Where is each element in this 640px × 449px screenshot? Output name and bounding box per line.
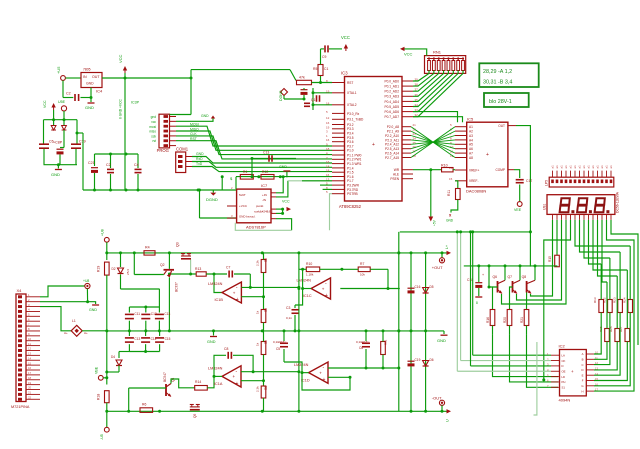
- svg-text:R18: R18: [97, 394, 101, 400]
- svg-text:C7: C7: [226, 266, 230, 270]
- svg-text:R20: R20: [503, 317, 507, 323]
- svg-text:D4: D4: [111, 355, 115, 359]
- svg-text:C6: C6: [359, 346, 363, 350]
- svg-text:C5: C5: [276, 347, 280, 351]
- svg-text:R11: R11: [384, 339, 388, 345]
- svg-text:28,29 -A 1,2: 28,29 -A 1,2: [483, 69, 512, 75]
- svg-text:12: 12: [28, 347, 32, 351]
- svg-text:PH: PH: [562, 380, 566, 384]
- svg-text:+: +: [322, 286, 325, 291]
- svg-text:Q1: Q1: [311, 98, 316, 102]
- svg-text:a1: a1: [560, 165, 564, 169]
- svg-text:GND: GND: [196, 152, 204, 156]
- svg-text:19: 19: [326, 89, 330, 93]
- svg-text:LM324N: LM324N: [294, 363, 309, 367]
- svg-text:D2: D2: [112, 267, 116, 271]
- svg-text:C13: C13: [134, 337, 140, 341]
- svg-text:LP5: LP5: [545, 180, 549, 186]
- svg-text:A6: A6: [469, 147, 473, 151]
- svg-text:IC2: IC2: [559, 344, 566, 349]
- svg-text:-U5: -U5: [100, 434, 104, 440]
- svg-text:VBE: VBE: [95, 366, 99, 374]
- svg-text:R12: R12: [262, 170, 268, 174]
- svg-text:Q8: Q8: [522, 275, 527, 279]
- svg-text:RN1: RN1: [433, 50, 442, 55]
- svg-text:DC56-11EWA: DC56-11EWA: [616, 191, 620, 213]
- svg-text:a1: a1: [551, 165, 555, 169]
- svg-text:A8: A8: [469, 156, 473, 160]
- svg-text:P0.2_AD2: P0.2_AD2: [384, 90, 399, 94]
- svg-text:19: 19: [28, 381, 32, 385]
- svg-text:+: +: [233, 290, 236, 295]
- svg-text:A+: A+: [64, 331, 68, 335]
- svg-text:R4: R4: [145, 246, 150, 250]
- svg-text:21: 21: [413, 123, 417, 127]
- svg-text:1.18k: 1.18k: [306, 273, 314, 277]
- svg-text:OUT: OUT: [92, 75, 100, 79]
- svg-text:12: 12: [326, 116, 330, 120]
- svg-text:14: 14: [449, 166, 453, 170]
- svg-text:miso: miso: [149, 130, 156, 134]
- svg-text:P2.4_A12: P2.4_A12: [385, 143, 399, 147]
- svg-text:P0.6_AD6: P0.6_AD6: [384, 110, 399, 114]
- svg-text:VCC: VCC: [404, 52, 413, 57]
- svg-text:VREF+: VREF+: [469, 168, 480, 172]
- svg-text:a1: a1: [609, 165, 613, 169]
- svg-text:ALE: ALE: [393, 172, 399, 176]
- svg-text:R13: R13: [195, 267, 201, 271]
- svg-text:A7: A7: [469, 152, 473, 156]
- svg-text:GND: GND: [51, 172, 60, 177]
- svg-text:VCC: VCC: [118, 54, 123, 63]
- svg-text:C19: C19: [79, 140, 86, 144]
- svg-text:DGND: DGND: [279, 90, 283, 101]
- svg-text:P3.1_TxBD: P3.1_TxBD: [347, 118, 364, 122]
- svg-text:P2.6_A14: P2.6_A14: [385, 152, 399, 156]
- svg-text:C13: C13: [263, 151, 269, 155]
- svg-text:+: +: [482, 273, 484, 277]
- svg-text:15: 15: [449, 177, 453, 181]
- svg-text:R14: R14: [195, 380, 201, 384]
- svg-text:CK: CK: [562, 359, 566, 363]
- svg-text:XTAL2: XTAL2: [347, 103, 357, 107]
- svg-text:P2.3_A11: P2.3_A11: [385, 138, 399, 142]
- svg-text:LD: LD: [562, 375, 566, 379]
- svg-text:47k: 47k: [299, 76, 305, 80]
- svg-text:a1: a1: [600, 165, 604, 169]
- svg-text:a1: a1: [578, 165, 582, 169]
- svg-text:OUT: OUT: [498, 124, 505, 128]
- svg-text:18: 18: [326, 101, 330, 105]
- svg-text:C9: C9: [322, 55, 326, 59]
- svg-text:C15: C15: [165, 337, 171, 341]
- svg-text:+IN: +IN: [262, 193, 267, 197]
- svg-text:R11: R11: [447, 190, 451, 196]
- svg-text:C8: C8: [224, 347, 228, 351]
- svg-text:IC1C: IC1C: [303, 294, 312, 298]
- svg-text:R15: R15: [548, 256, 552, 262]
- svg-text:P2.0_A8: P2.0_A8: [387, 125, 399, 129]
- svg-text:a1: a1: [591, 165, 595, 169]
- svg-text:ADS7816P: ADS7816P: [246, 225, 266, 230]
- svg-text:P0.1_AD1: P0.1_AD1: [384, 85, 399, 89]
- svg-text:P0.7_AD7: P0.7_AD7: [384, 115, 399, 119]
- svg-text:30,31 -B 3,4: 30,31 -B 3,4: [483, 79, 512, 85]
- svg-text:0,1n: 0,1n: [286, 316, 292, 320]
- svg-text:H: H: [581, 389, 583, 393]
- svg-text:5x9T: 5x9T: [239, 193, 246, 197]
- svg-text:Q3: Q3: [176, 242, 180, 247]
- svg-text:IN: IN: [83, 75, 87, 79]
- svg-text:+: +: [236, 381, 239, 387]
- svg-text:+U8: +U8: [101, 229, 105, 236]
- svg-text:1k: 1k: [256, 310, 260, 314]
- svg-text:7805: 7805: [83, 68, 91, 72]
- svg-text:18: 18: [28, 376, 32, 380]
- svg-text:AT89C8252: AT89C8252: [339, 204, 362, 209]
- svg-text:8: 8: [476, 301, 478, 305]
- svg-text:Q5: Q5: [193, 414, 197, 418]
- svg-text:DGND: DGND: [206, 197, 218, 202]
- svg-text:S1: S1: [562, 386, 566, 390]
- svg-text:IC5: IC5: [467, 117, 474, 122]
- svg-text:A1: A1: [469, 125, 473, 129]
- svg-text:PSTRB: PSTRB: [347, 192, 358, 196]
- svg-text:VEE: VEE: [514, 208, 522, 212]
- svg-text:GND: GND: [89, 308, 97, 312]
- svg-text:1k: 1k: [256, 342, 260, 346]
- svg-text:Q6: Q6: [493, 275, 498, 279]
- svg-text:R16: R16: [486, 317, 490, 323]
- svg-text:GND: GND: [85, 105, 94, 110]
- svg-text:C17: C17: [526, 179, 532, 183]
- svg-text:-OUT: -OUT: [432, 396, 442, 401]
- svg-text:XTAL1: XTAL1: [347, 91, 357, 95]
- svg-text:GND: GND: [279, 165, 287, 169]
- svg-text:A2: A2: [469, 130, 473, 134]
- svg-text:TxD: TxD: [196, 162, 203, 166]
- svg-text:C13: C13: [164, 312, 170, 316]
- svg-text:IC3: IC3: [341, 71, 348, 76]
- svg-text:C11: C11: [134, 312, 140, 316]
- svg-text:GND: GND: [446, 219, 454, 223]
- svg-text:P0.0_AD0: P0.0_AD0: [384, 79, 399, 83]
- svg-text:8 GND +VCC: 8 GND +VCC: [119, 99, 123, 119]
- svg-text:VCC: VCC: [282, 200, 290, 204]
- svg-text:VCC: VCC: [341, 35, 350, 40]
- svg-text:GND: GND: [437, 338, 446, 343]
- svg-text:R6: R6: [142, 403, 146, 407]
- svg-text:R3: R3: [264, 308, 268, 312]
- svg-text:22: 22: [28, 395, 32, 399]
- svg-text:A: A: [582, 352, 584, 356]
- svg-text:a1: a1: [596, 165, 600, 169]
- svg-text:+C8P: +C8P: [53, 141, 63, 145]
- svg-text:Z5.6: Z5.6: [126, 269, 130, 275]
- svg-text:RST: RST: [347, 81, 353, 85]
- svg-text:P0.5_AD5: P0.5_AD5: [384, 105, 399, 109]
- svg-text:+: +: [236, 297, 239, 303]
- svg-text:C21: C21: [88, 161, 95, 165]
- svg-text:C2: C2: [66, 92, 71, 96]
- svg-text:Q7: Q7: [508, 275, 513, 279]
- svg-text:VREF-: VREF-: [469, 179, 479, 183]
- svg-text:10k: 10k: [360, 273, 365, 277]
- svg-text:vcc: vcc: [151, 120, 156, 124]
- svg-text:PSEN: PSEN: [390, 177, 399, 181]
- svg-text:IC4: IC4: [96, 89, 103, 94]
- svg-text:F: F: [582, 379, 584, 383]
- svg-text:P2.5_A13: P2.5_A13: [385, 147, 399, 151]
- svg-text:+: +: [571, 369, 574, 374]
- svg-text:10: 10: [28, 337, 32, 341]
- svg-text:a1: a1: [582, 165, 586, 169]
- svg-text:2.3k: 2.3k: [256, 386, 260, 392]
- svg-text:P2.7_A15: P2.7_A15: [385, 156, 399, 160]
- svg-text:punkt: punkt: [256, 204, 264, 208]
- svg-text:0,1&#181;: 0,1&#181;: [356, 340, 370, 344]
- svg-text:D5: D5: [430, 285, 434, 289]
- svg-text:18: 18: [326, 147, 330, 151]
- svg-text:+VCC: +VCC: [239, 204, 248, 208]
- svg-text:OE: OE: [562, 369, 566, 373]
- svg-text:sck: sck: [151, 135, 156, 139]
- svg-text:+: +: [372, 142, 375, 148]
- svg-text:R1: R1: [243, 170, 247, 174]
- svg-text:+: +: [319, 370, 322, 375]
- svg-text:GND: GND: [201, 114, 209, 118]
- svg-text:D: D: [562, 364, 564, 368]
- svg-text:R23: R23: [613, 297, 617, 303]
- svg-text:a1: a1: [555, 165, 559, 169]
- svg-text:A3: A3: [469, 134, 473, 138]
- svg-text:2.2k: 2.2k: [256, 260, 260, 266]
- svg-text:D: D: [581, 368, 583, 372]
- svg-text:C3: C3: [286, 306, 290, 310]
- svg-text:a1: a1: [605, 165, 609, 169]
- svg-text:-IN: -IN: [262, 198, 266, 202]
- svg-text:P2.2_A10: P2.2_A10: [385, 134, 399, 138]
- svg-text:IC1B: IC1B: [215, 298, 224, 302]
- svg-text:U: U: [446, 419, 450, 422]
- svg-text:R9: R9: [264, 340, 268, 344]
- svg-text:R8: R8: [264, 386, 268, 390]
- svg-text:17: 17: [28, 371, 32, 375]
- svg-text:4094N: 4094N: [559, 398, 571, 403]
- svg-text:a1: a1: [587, 165, 591, 169]
- svg-text:a1: a1: [564, 165, 568, 169]
- svg-text:R10: R10: [441, 164, 448, 168]
- svg-text:D6: D6: [430, 358, 434, 362]
- svg-text:rst: rst: [152, 139, 156, 143]
- svg-text:0,1&#181;: 0,1&#181;: [273, 340, 287, 344]
- svg-text:R5: R5: [313, 67, 317, 71]
- svg-text:IC7: IC7: [261, 183, 268, 188]
- svg-text:blo 28V-1: blo 28V-1: [489, 99, 512, 105]
- svg-text:PROG: PROG: [157, 148, 169, 153]
- svg-text:P3.0_Rx: P3.0_Rx: [347, 112, 360, 116]
- svg-text:R13: R13: [593, 297, 597, 303]
- svg-text:X4: X4: [17, 288, 23, 293]
- svg-text:P0.3_AD3: P0.3_AD3: [384, 95, 399, 99]
- svg-text:U5E: U5E: [58, 100, 66, 104]
- svg-text:+U8: +U8: [83, 279, 89, 283]
- svg-text:IC3P: IC3P: [131, 101, 140, 105]
- svg-text:Q4: Q4: [171, 378, 175, 382]
- svg-text:rozk&#248;B2: rozk&#248;B2: [254, 210, 273, 214]
- svg-text:a1: a1: [573, 165, 577, 169]
- svg-text:16: 16: [28, 366, 32, 370]
- svg-text:+OUT: +OUT: [432, 265, 443, 270]
- svg-text:E: E: [582, 373, 584, 377]
- svg-text:M721PINA: M721PINA: [11, 405, 30, 409]
- svg-text:C19: C19: [415, 358, 421, 362]
- svg-text:GND bezucl.: GND bezucl.: [239, 215, 256, 219]
- svg-text:mosi: mosi: [149, 125, 156, 129]
- svg-text:A5: A5: [469, 143, 473, 147]
- svg-text:15: 15: [28, 361, 32, 365]
- svg-text:GND: GND: [207, 340, 216, 344]
- svg-text:R19: R19: [97, 266, 101, 272]
- svg-text:+: +: [325, 293, 328, 299]
- svg-text:21: 21: [28, 391, 32, 395]
- svg-text:A+: A+: [84, 331, 88, 335]
- svg-text:LM324N: LM324N: [208, 282, 223, 286]
- svg-text:R7: R7: [360, 262, 364, 266]
- svg-text:Q2: Q2: [160, 263, 165, 267]
- svg-text:L+: L+: [445, 245, 449, 249]
- svg-text:C: C: [581, 363, 583, 367]
- svg-text:G: G: [581, 384, 583, 388]
- svg-text:a1: a1: [569, 165, 573, 169]
- svg-text:P1.0: P1.0: [347, 149, 354, 153]
- svg-text:20: 20: [28, 386, 32, 390]
- svg-text:L1: L1: [72, 319, 76, 323]
- svg-text:VCC: VCC: [43, 100, 47, 108]
- svg-text:R24: R24: [623, 297, 627, 303]
- svg-text:IC1A: IC1A: [214, 382, 223, 386]
- svg-text:+: +: [233, 374, 236, 379]
- svg-text:U$1: U$1: [543, 204, 547, 210]
- svg-text:B: B: [582, 358, 584, 362]
- svg-text:gnd: gnd: [151, 115, 157, 119]
- svg-text:R21: R21: [520, 317, 524, 323]
- svg-text:+U5: +U5: [56, 66, 61, 74]
- svg-text:DAC0808N: DAC0808N: [466, 189, 486, 194]
- svg-text:+5V: +5V: [433, 219, 437, 226]
- svg-text:C2: C2: [106, 163, 111, 167]
- svg-text:C4: C4: [134, 163, 139, 167]
- svg-text:C16: C16: [415, 285, 421, 289]
- svg-text:C1: C1: [324, 67, 328, 71]
- svg-text:COMP: COMP: [495, 168, 505, 172]
- svg-text:R10: R10: [306, 262, 312, 266]
- svg-text:R22: R22: [603, 297, 607, 303]
- svg-text:14: 14: [28, 356, 32, 360]
- svg-text:P0.4_AD4: P0.4_AD4: [384, 100, 399, 104]
- svg-text:+: +: [323, 377, 326, 383]
- svg-text:COM1: COM1: [176, 147, 189, 152]
- svg-text:BC547: BC547: [163, 372, 167, 382]
- svg-text:P2.1_A9: P2.1_A9: [387, 130, 399, 134]
- svg-text:R2: R2: [264, 258, 268, 262]
- svg-text:11: 11: [28, 342, 31, 346]
- svg-text:A4: A4: [469, 138, 473, 142]
- svg-text:RxD: RxD: [196, 157, 203, 161]
- svg-text:BC337: BC337: [175, 282, 179, 292]
- svg-text:13: 13: [28, 352, 32, 356]
- svg-text:LM324N: LM324N: [208, 367, 223, 371]
- svg-text:LA: LA: [562, 353, 566, 357]
- svg-text:+: +: [486, 152, 489, 158]
- svg-text:GND: GND: [86, 82, 94, 86]
